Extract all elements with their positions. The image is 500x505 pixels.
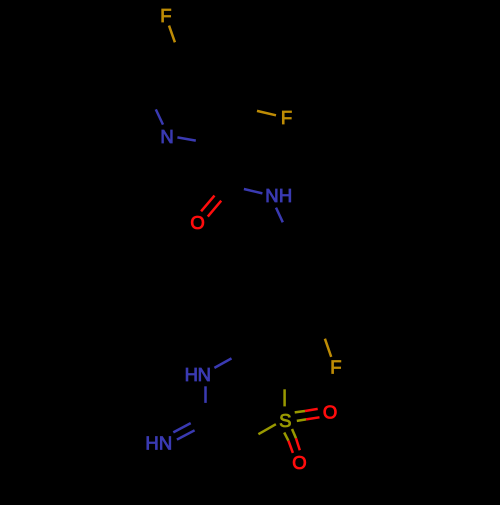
wire C3-F2 bond stub	[257, 111, 276, 115]
wire C=N(imine) double bond line b	[177, 430, 195, 439]
wire C=N(imine) double bond line a	[173, 423, 190, 432]
svg-text:N: N	[265, 185, 278, 206]
wire C-F3 bond stub	[325, 339, 331, 357]
wire N(ring)-C(imine) bond stub	[204, 386, 207, 403]
svg-text:O: O	[292, 452, 306, 473]
wire N1-C2 ring bond stub	[177, 137, 195, 140]
wire C7=O1 double bond line a	[201, 196, 214, 212]
svg-text:N: N	[160, 126, 173, 147]
svg-text:H: H	[145, 432, 158, 453]
svg-text:F: F	[160, 5, 171, 26]
svg-text:S: S	[279, 410, 291, 431]
svg-text:N: N	[198, 364, 211, 385]
svg-text:O: O	[190, 212, 204, 233]
svg-text:O: O	[323, 402, 337, 423]
wire C7=O1 double bond line b	[208, 201, 221, 217]
wire S=O3 lineR O-half	[296, 438, 300, 450]
wire S-C(aryl) bond stub	[283, 389, 286, 406]
svg-text:F: F	[330, 357, 341, 378]
wire S=O2 line1 S-half	[295, 411, 305, 412]
wire S=O2 line2 O-half	[306, 417, 319, 419]
wire C7-N(amide) bond stub	[244, 189, 263, 193]
wire N(amide)-C8 bond stub	[276, 208, 283, 223]
svg-text:H: H	[279, 185, 292, 206]
wire S=O2 line1 O-half	[305, 409, 318, 411]
svg-text:F: F	[281, 107, 292, 128]
wire S=O2 line2 S-half	[297, 419, 306, 421]
wire S=O3 lineL O-half	[288, 441, 293, 453]
wire C-N1 ring bond stub	[156, 109, 163, 124]
wire S=O3 lineL S-half	[284, 433, 288, 441]
svg-text:H: H	[185, 364, 198, 385]
wire N(ring)-CH2 bond stub	[214, 358, 231, 368]
wire S=O3 lineR S-half	[292, 429, 296, 438]
svg-text:N: N	[159, 432, 172, 453]
wire S-CH2 bond stub	[258, 424, 276, 434]
wire F1-C bond stub	[169, 26, 175, 43]
